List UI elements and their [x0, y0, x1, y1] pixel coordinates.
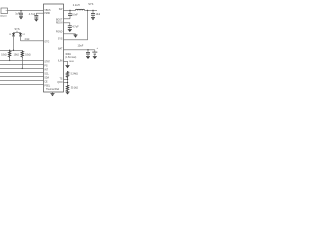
svg-text:10uF: 10uF [78, 44, 84, 48]
svg-text:D1: D1 [9, 34, 11, 36]
wire REGN [63, 23, 69, 26]
wire D1 to rail [13, 36, 15, 51]
wire VBUS [8, 10, 44, 12]
svg-text:STAT: STAT [44, 60, 50, 63]
node TS [67, 79, 68, 80]
wire SYS riser [63, 10, 87, 39]
ground (battery) [93, 56, 97, 59]
node cap C1 junction [20, 10, 21, 11]
svg-text:VBUS: VBUS [44, 10, 51, 12]
svg-text:30.1kΩ: 30.1kΩ [71, 87, 79, 89]
wire STAT line [0, 59, 44, 61]
resistor R2 10k [14, 50, 31, 58]
wire SYS rail [85, 9, 98, 11]
svg-text:SYS: SYS [58, 38, 63, 40]
wire PMID [36, 12, 43, 14]
svg-text:160Ω: 160Ω [69, 61, 74, 63]
svg-text:PGND: PGND [56, 31, 63, 33]
svg-text:QON: QON [57, 82, 63, 84]
node riser junction [87, 10, 88, 11]
ground (ILIM) [66, 65, 70, 68]
svg-text:4.7uF: 4.7uF [29, 12, 36, 16]
capacitor C1 1uF [15, 11, 23, 17]
svg-text:SCL: SCL [44, 73, 49, 75]
node SW junction [69, 10, 70, 11]
svg-text:OTG: OTG [44, 41, 49, 43]
svg-text:10uF: 10uF [96, 14, 100, 16]
svg-text:5.24kΩ: 5.24kΩ [71, 74, 79, 76]
wire SCL line [0, 71, 44, 73]
wire BAT [63, 49, 94, 51]
diode D1 [9, 32, 15, 36]
svg-text:PMID: PMID [44, 13, 50, 15]
ground (TS chain) [66, 92, 70, 95]
svg-text:10kΩ: 10kΩ [14, 55, 20, 57]
svg-text:ILIM: ILIM [58, 60, 63, 62]
svg-text:1uF: 1uF [15, 11, 20, 15]
svg-text:D2: D2 [23, 34, 25, 36]
capacitor C6 BAT [86, 50, 90, 56]
svg-text:10kΩ: 10kΩ [25, 55, 31, 57]
wire SDA line [0, 75, 44, 77]
svg-text:2 kΩ: 2 kΩ [25, 39, 30, 41]
capacitor C2 4.7uF [29, 12, 39, 19]
svg-text:INT: INT [44, 69, 48, 71]
capacitor C3 bootstrap 10nF [68, 10, 78, 18]
svg-text:10nF: 10nF [72, 12, 78, 16]
svg-text:Thermal Pad: Thermal Pad [46, 88, 60, 91]
svg-text:4.7uF: 4.7uF [72, 24, 79, 28]
node rail junction D1 [13, 50, 14, 51]
connector J1 (adapter input) [1, 8, 8, 14]
diode D2 [19, 32, 25, 36]
ground (C6) [86, 56, 90, 59]
svg-text:REGN: REGN [56, 23, 63, 25]
svg-text:300Ω: 300Ω [65, 54, 71, 56]
wire TS pin [63, 78, 67, 80]
ground (C5) [91, 18, 95, 21]
wire pull-up rail [0, 49, 22, 51]
wire OTG pin [21, 40, 44, 42]
svg-text:PG: PG [44, 65, 48, 67]
node SYS flag [14, 27, 21, 32]
wire INT line [0, 67, 44, 69]
wire R1 drop [9, 58, 11, 60]
wire ILIM [63, 61, 67, 65]
wire D2 to OTG line [20, 36, 22, 41]
inductor L1 2.2uH [73, 3, 85, 11]
battery BT1 [92, 47, 98, 56]
svg-text:10kΩ: 10kΩ [1, 55, 7, 57]
svg-text:2.2uH: 2.2uH [73, 3, 80, 7]
resistor R1 10k [1, 50, 11, 58]
ground (PGND) [74, 34, 78, 38]
IC U1 body [44, 4, 64, 92]
ground (thermal pad) [51, 94, 55, 97]
wire thermal pad stub [52, 92, 54, 93]
svg-text:CE: CE [44, 81, 48, 83]
resistor R4 5.24k [66, 71, 78, 78]
wire PSEL line [0, 84, 44, 86]
node QON [67, 82, 68, 83]
wire SW [63, 9, 75, 11]
svg-text:BAT: BAT [58, 47, 63, 50]
svg-text:SDA: SDA [44, 76, 49, 79]
svg-text:TS: TS [60, 78, 63, 80]
ground (C1) [19, 17, 23, 20]
node BAT cap junction [87, 49, 88, 50]
node R1-line1 [9, 60, 10, 61]
wire PGND [63, 33, 75, 35]
svg-text:Adapter: Adapter [0, 14, 7, 17]
svg-text:BOOT: BOOT [56, 20, 63, 22]
svg-text:PSEL: PSEL [44, 85, 51, 87]
svg-text:SYS: SYS [88, 2, 93, 6]
node R2-line3 [22, 68, 23, 69]
node rail junction R1 [9, 50, 10, 51]
svg-text:(1.5A max): (1.5A max) [65, 56, 76, 59]
svg-text:SYS: SYS [14, 27, 19, 31]
resistor R5 30.1k [66, 85, 78, 92]
wire CE line [0, 79, 44, 81]
capacitor C4 4.7uF [68, 24, 79, 29]
ground (C4) [68, 29, 72, 32]
wire PG line [0, 63, 44, 65]
capacitor C5 SYS 10uF [91, 10, 101, 17]
wire BOOT [63, 18, 70, 20]
ground (C2) [34, 19, 38, 22]
wire TS chain [67, 78, 69, 84]
wire R2 drop [21, 58, 23, 68]
wire QON pin [63, 82, 67, 84]
